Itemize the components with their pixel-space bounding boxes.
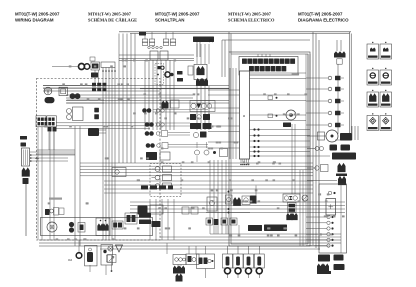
svg-text:MT01(T-W) 2005-2007: MT01(T-W) 2005-2007 <box>228 12 272 17</box>
svg-text:DIAGRAMA ELECTRICO: DIAGRAMA ELECTRICO <box>298 18 349 23</box>
svg-text:MT01(T-W) 2005-2007: MT01(T-W) 2005-2007 <box>15 12 60 17</box>
svg-text:MT01(T-W) 2005-2007: MT01(T-W) 2005-2007 <box>298 12 343 17</box>
svg-text:(B): (B) <box>209 39 214 43</box>
svg-text:WIRING DIAGRAM: WIRING DIAGRAM <box>15 18 54 23</box>
svg-text:SCHEMA ELECTRICO: SCHEMA ELECTRICO <box>228 18 275 23</box>
svg-text:MT01(T-W) 2005-2007: MT01(T-W) 2005-2007 <box>88 12 132 17</box>
svg-text:a: a <box>243 114 245 118</box>
svg-text:SCHÉMA DE CÂBLAGE: SCHÉMA DE CÂBLAGE <box>88 18 137 23</box>
svg-text:O2: O2 <box>68 258 72 262</box>
svg-text:SCHALTPLAN: SCHALTPLAN <box>155 18 184 23</box>
svg-text:MT01(T-W) 2005-2007: MT01(T-W) 2005-2007 <box>155 12 200 17</box>
